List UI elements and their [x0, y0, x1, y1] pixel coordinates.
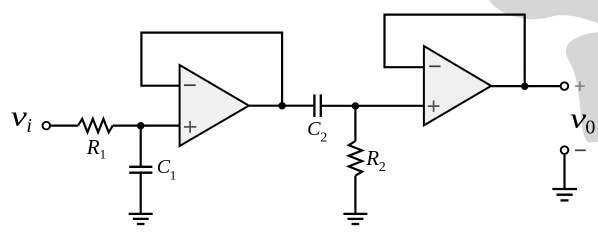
label R2 — [365, 146, 386, 175]
wire U2 output — [491, 85, 560, 87]
svg-text:R: R — [365, 146, 379, 170]
label C2 — [307, 118, 327, 145]
label C1 — [157, 156, 177, 183]
wire node C down to R2 — [354, 106, 356, 141]
terminal v0 plus — [561, 82, 569, 90]
wire R1 to node A — [113, 124, 180, 126]
wire feedback U1 (minus input loop) — [141, 33, 282, 106]
wire R2 to ground — [354, 176, 356, 213]
ground (below R2) — [343, 214, 367, 224]
svg-text:1: 1 — [170, 167, 177, 182]
ground (below v0 minus terminal) — [552, 189, 577, 200]
label plus (output polarity) — [575, 81, 585, 91]
svg-text:0: 0 — [585, 117, 595, 139]
capacitor C2 — [314, 94, 320, 117]
terminal vi — [43, 122, 51, 130]
svg-text:2: 2 — [379, 160, 386, 175]
node C junction — [352, 102, 359, 109]
label minus (output polarity) — [575, 149, 586, 151]
op-amp U2 — [424, 46, 491, 125]
wire C2 to node C — [322, 105, 424, 107]
wire U1 output — [249, 105, 314, 107]
svg-text:v: v — [11, 101, 28, 133]
svg-text:R: R — [86, 135, 100, 159]
label v0 — [570, 103, 595, 139]
capacitor C1 — [129, 167, 152, 173]
terminal v0 minus — [561, 146, 569, 154]
wire C1 to ground — [140, 174, 142, 213]
resistor R1 — [78, 119, 113, 132]
op-amp U1 — [180, 65, 249, 146]
wire node A down to C1 — [140, 126, 142, 166]
wire vi terminal to R1 — [50, 124, 78, 126]
svg-text:i: i — [26, 115, 32, 137]
node D (U2 output junction) — [521, 83, 528, 90]
svg-text:C: C — [157, 156, 171, 178]
svg-text:v: v — [570, 103, 587, 135]
label R1 — [86, 135, 106, 161]
label vi — [11, 101, 32, 137]
node A junction — [137, 122, 144, 129]
wire terminal to ground — [563, 154, 565, 188]
svg-text:1: 1 — [100, 146, 107, 161]
resistor R2 — [349, 141, 362, 176]
svg-text:C: C — [307, 118, 321, 140]
svg-text:2: 2 — [320, 130, 327, 145]
ground (below C1) — [129, 214, 153, 224]
wire feedback U2 (minus input loop) — [385, 15, 525, 87]
node B (U1 output junction) — [278, 102, 285, 109]
